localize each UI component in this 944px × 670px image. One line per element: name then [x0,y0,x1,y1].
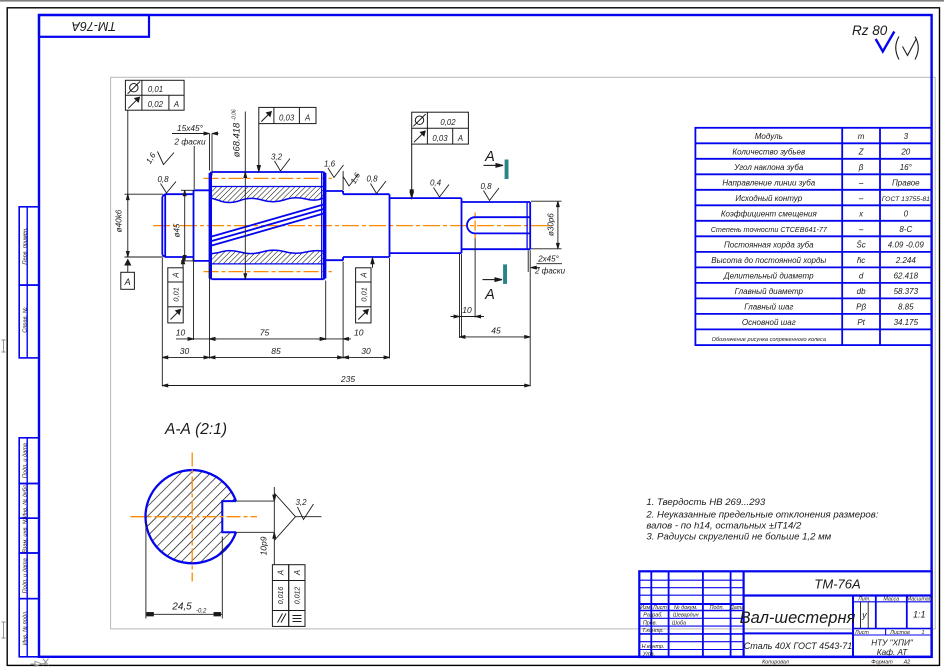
svg-text:3,2: 3,2 [271,153,283,162]
svg-text:Подп. и дата: Подп. и дата [23,558,29,593]
svg-text:Коэффициент смещения: Коэффициент смещения [721,209,818,218]
ext line journal2 right [389,258,391,359]
chamfer dim 2x45 right [528,250,562,272]
svg-text:75: 75 [260,328,270,338]
table column dividers [841,128,843,345]
left margin box: Vzam. inv. No [19,518,39,553]
main axis [153,225,552,227]
table outer border [695,128,931,345]
svg-text:0,016: 0,016 [278,587,285,605]
svg-text:0,01: 0,01 [148,85,163,94]
vertical tolerance frame right (below journal2) [356,258,375,323]
svg-text:4.09 -0.09: 4.09 -0.09 [888,240,925,249]
svg-text:Угол наклона зуба: Угол наклона зуба [733,163,804,172]
top gray strip [0,0,944,2]
svg-text:-0.06: -0.06 [232,109,238,121]
svg-text:Изм: Изм [640,605,650,611]
svg-text:0: 0 [904,209,909,218]
svg-text:А: А [484,149,495,165]
svg-text:0,03: 0,03 [279,113,295,122]
list/listov row [853,628,932,630]
dim 10p9 keyway [236,487,276,565]
svg-text:3: 3 [904,132,909,141]
svg-text:Высота до постоянной хорды: Высота до постоянной хорды [711,256,826,265]
symmetry symbol [293,615,302,617]
svg-text:Сталь 40Х ГОСТ 4543-71: Сталь 40Х ГОСТ 4543-71 [744,641,852,651]
svg-text:30: 30 [180,346,190,356]
tolerance frame 3 (over 035a11) [410,112,468,198]
keyway slot bottom line [475,232,530,234]
svg-text:0,02: 0,02 [440,118,456,127]
ext line collar left [193,258,195,340]
gear rim hatch bottom [210,250,326,264]
svg-text:3. Радиусы скруглений не больш: 3. Радиусы скруглений не больше 1,2 мм [646,532,831,543]
svg-text:85: 85 [271,346,281,356]
svg-text:Утв.: Утв. [642,652,655,658]
svg-text:2.244: 2.244 [895,256,917,265]
svg-text:1. Твердость НВ 269...293: 1. Твердость НВ 269...293 [646,497,765,508]
svg-text:Дата: Дата [729,605,744,611]
fold mark X bottom-left [31,659,49,667]
svg-text:Количество зубьев: Количество зубьев [732,147,805,156]
gear tip bottom edge [210,277,326,279]
svg-text:S̄c: S̄c [856,240,865,249]
title block verticals left part [650,571,652,657]
svg-text:А: А [484,287,495,303]
svg-text:Инв. № дубл.: Инв. № дубл. [23,484,29,518]
ext line above step for roughness [342,171,344,190]
svg-text:3,2: 3,2 [295,498,307,507]
top-left designation box [39,15,149,37]
lit small cells (black) [860,602,862,629]
svg-text:10: 10 [462,305,472,315]
svg-text:Pt: Pt [857,318,865,327]
step 044 [326,191,343,260]
section centerlines [131,453,258,582]
svg-text:Лист: Лист [854,630,869,636]
svg-text:15x45°: 15x45° [177,123,204,133]
dim 10 collar row1 [176,338,218,341]
helix tooth line 3 [211,213,325,246]
svg-text:1,6: 1,6 [324,160,336,169]
svg-text:ø68.418: ø68.418 [231,122,242,157]
svg-text:Каф. АТ: Каф. АТ [877,648,908,657]
svg-text:8-C: 8-C [899,225,912,234]
svg-text:ø40k6: ø40k6 [115,209,124,232]
lit massa masshtab header [853,601,932,603]
ext line shaft right end [529,250,531,386]
keyway arc center mark [474,213,476,239]
svg-text:Масса: Масса [883,596,899,602]
dim 75 gear row1 [210,338,326,341]
svg-text:А: А [457,134,463,143]
section 035a11 [390,198,462,253]
svg-text:Копировал: Копировал [762,660,789,666]
svg-text:8.85: 8.85 [898,302,914,311]
svg-text:0,012: 0,012 [295,587,302,605]
edge marks on left page margin [2,340,6,638]
pitch line bottom [204,271,332,273]
left margin rotated labels [23,227,29,645]
header row bottom [639,610,743,612]
svg-text:Rz 80: Rz 80 [852,23,888,38]
dim 235 row3 [162,384,530,387]
keyway slot round end [467,217,475,233]
svg-text:235: 235 [340,374,355,384]
ext line gear right [325,281,327,341]
gear root lines [210,187,326,264]
svg-text:–: – [858,194,864,203]
svg-text:Исходный контур: Исходный контур [735,194,802,203]
orange centerlines [153,178,552,271]
svg-text:16°: 16° [900,163,913,172]
svg-text:А-А (2:1): А-А (2:1) [164,421,227,438]
svg-text:0,8: 0,8 [366,175,378,184]
svg-text:β: β [858,163,864,172]
svg-text:Pβ: Pβ [856,302,866,311]
svg-text:Н.контр.: Н.контр. [642,644,665,650]
svg-text:d: d [859,271,864,280]
svg-text:Шоба: Шоба [672,620,686,626]
ext line left end [161,258,163,386]
svg-text:Перв. примен.: Перв. примен. [23,227,29,264]
helix tooth line 1 [211,204,325,237]
ext line step right [342,262,344,359]
svg-text:ТМ-76А: ТМ-76А [814,577,860,592]
dim 30 right row2 [343,356,389,359]
svg-text:0,01: 0,01 [359,287,368,302]
left margin box: Inv. No podl. [19,599,39,657]
table row lines [695,142,931,144]
hatched shaft section circle [145,470,236,563]
ext line shoulder 030 [461,254,463,338]
svg-text:20: 20 [900,147,910,156]
svg-text:А: А [359,272,368,278]
svg-text:Главный шаг: Главный шаг [744,302,793,311]
svg-text:0,4: 0,4 [430,179,442,188]
svg-text:–: – [858,178,864,187]
gear right inner chamfer line [321,173,323,279]
svg-text:А: А [293,570,302,576]
svg-text:Модуль: Модуль [755,132,783,141]
keyway notch outline [222,501,236,532]
svg-text:Постоянная хорда зуба: Постоянная хорда зуба [724,240,814,249]
svg-text:Инв. № подл.: Инв. № подл. [23,610,29,645]
designation cell bottom [744,594,932,596]
datum A triangle and box [124,259,131,266]
svg-text:62.418: 62.418 [894,271,919,280]
gray view rectangle [111,77,936,629]
svg-text:Формат: Формат [871,660,893,666]
dim 068.418 gear [244,112,247,280]
svg-text:34.175: 34.175 [894,318,919,327]
svg-text:2. Неуказанные предельные откл: 2. Неуказанные предельные отклонения раз… [645,510,878,521]
svg-text:А: А [304,113,310,122]
name cell divider [852,596,854,658]
dim 10 keyway position [451,254,485,338]
dim 45 end section [460,336,531,339]
svg-text:А: А [124,277,131,287]
svg-text:Лист: Лист [652,605,667,611]
journal 1 chamfer line [164,194,166,257]
svg-text:у: у [861,610,867,620]
svg-text:№ докум.: № докум. [674,605,698,611]
svg-text:А2: А2 [903,660,911,666]
svg-text:0,8: 0,8 [480,182,492,191]
gear tip top edge [210,172,326,174]
wavy break line top [210,197,326,203]
svg-text:1:1: 1:1 [913,610,926,620]
journal 2 (040k6) [343,194,389,257]
svg-text:10: 10 [176,328,186,338]
end chamfer line [526,202,528,249]
rotated tolerance frames (parallelism / symmetry) [272,565,305,627]
gear right face (thick) [323,173,326,278]
material / name divider [744,632,853,634]
ext line gear left [209,262,211,359]
dim 85 row2 [210,356,344,359]
svg-text:1: 1 [922,630,925,636]
helix tooth line 2 [211,209,325,242]
svg-text:ø30р6: ø30р6 [547,213,556,236]
svg-text:А: А [173,100,179,109]
svg-text:Степень точности СТСЕВ641-77: Степень точности СТСЕВ641-77 [711,225,828,234]
svg-text:ТМ-76А: ТМ-76А [72,19,117,33]
title block outer border [639,571,931,657]
svg-text:Масштаб: Масштаб [907,596,933,602]
svg-text:Подп.: Подп. [710,605,724,611]
svg-text:Справ. №: Справ. № [23,307,29,332]
gear left face (thick) [209,173,212,278]
shaft outline (blue) [162,172,530,279]
svg-text:Вал-шестерня: Вал-шестерня [740,609,856,627]
svg-text:0,03: 0,03 [432,134,448,143]
svg-text:–: – [858,225,864,234]
dim 040k6 left [125,110,164,257]
parallelism symbol [278,614,283,623]
leader to roughness 3.2 [274,493,321,541]
svg-text:db: db [857,287,866,296]
collar 045 [194,190,210,261]
end section 030p6 [462,202,531,249]
keyway slot top line [475,216,530,218]
vertical tolerance frame left (below journal1) [168,258,185,323]
dim 10 step row1 [317,338,351,341]
svg-text:Основной шаг: Основной шаг [742,318,796,327]
svg-text:45: 45 [491,326,501,336]
ext line above collar for roughness [193,146,195,189]
left margin box: Podp. i data (upper) [19,438,39,484]
tolerance frame 1 (left, over journal1) [125,80,184,110]
wavy break line bottom [210,250,326,254]
svg-text:Листов: Листов [889,630,910,636]
svg-text:Лит.: Лит. [857,596,871,602]
svg-text:валов - по h14, остальных ±IT1: валов - по h14, остальных ±IT14/2 [646,521,802,532]
chamfer dim 1.5x45 [172,132,219,175]
pitch line top [204,177,332,179]
svg-text:Разраб.: Разраб. [643,613,663,619]
svg-text:0,8: 0,8 [157,175,169,184]
gear rim hatch top [210,187,326,203]
svg-text:Пров.: Пров. [643,620,657,626]
svg-text:Шевардин: Шевардин [673,613,699,619]
svg-text:Взам. инв. №: Взам. инв. № [23,518,29,553]
left margin box: Sprav. No [19,285,39,358]
svg-text:30: 30 [361,346,371,356]
svg-text:Подп. и дата: Подп. и дата [23,443,29,478]
svg-text:2 фаски: 2 фаски [534,267,566,276]
ext line keyway center [474,238,476,318]
svg-text:ГОСТ 13755-81: ГОСТ 13755-81 [882,196,930,203]
dim 30 left row2 [162,356,209,359]
dim 045 collar [181,190,194,261]
svg-text:58.373: 58.373 [894,287,919,296]
left margin box: Perv. primen. [19,207,39,285]
svg-text:2 фаски: 2 фаски [173,137,206,147]
tolerance frame 2 (over gear) [257,107,316,171]
svg-text:А: А [277,570,286,576]
svg-text:24,5: 24,5 [171,602,192,613]
svg-text:h̄c: h̄c [857,256,865,265]
svg-text:-0,2: -0,2 [196,609,207,615]
journal 1 (040k6) outline [162,194,193,257]
svg-text:Обозначение рисунка сопряженно: Обозначение рисунка сопряженного колеса [712,337,826,343]
svg-text:НТУ "ХПИ": НТУ "ХПИ" [871,639,914,648]
svg-text:Главный диаметр: Главный диаметр [735,287,804,296]
left margin box: Podp. i data (lower) [19,553,39,599]
svg-text:Делительный диаметр: Делительный диаметр [723,271,814,280]
svg-text:m: m [858,132,865,141]
svg-text:Направление линии зуба: Направление линии зуба [722,178,815,187]
svg-text:10: 10 [354,328,364,338]
dim 030p6 right [531,201,562,249]
svg-text:ø45: ø45 [173,223,182,237]
left margin box: Inv. No dubl. [19,484,39,519]
signature rows [639,617,743,619]
dim 24.5 [146,521,222,619]
svg-text:2x45°: 2x45° [537,255,559,264]
svg-text:10р9: 10р9 [259,536,269,555]
svg-text:Правое: Правое [892,178,920,187]
revision area thin rows [639,579,743,581]
svg-text:Т.контр.: Т.контр. [642,628,664,634]
svg-text:А: А [172,272,181,278]
svg-text:0,01: 0,01 [172,287,181,302]
svg-text:0,02: 0,02 [148,100,164,109]
